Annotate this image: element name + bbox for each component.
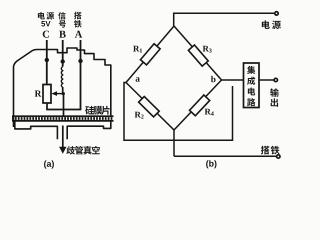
R bottom lead [46, 103, 48, 110]
label R3 [203, 46, 212, 53]
power terminal ring [275, 12, 278, 15]
resistor R1 body [140, 44, 160, 65]
IC box [244, 63, 260, 108]
wire C vertical [46, 40, 48, 85]
wire bridge bottom to ground line [173, 130, 175, 156]
junction dot on B [61, 59, 65, 63]
label R2 [135, 112, 144, 119]
wire node a to IC bottom (down, right, up) [124, 83, 233, 141]
diaphragm band bottom line [12, 120, 114, 122]
caption (a) [44, 160, 54, 168]
output wire from IC [259, 79, 274, 81]
label 搭铁 (terminal A) [74, 12, 82, 19]
resistor R (part a) [43, 85, 51, 104]
label 电源 5V (terminal C) [38, 12, 45, 19]
resistor R2 body [139, 96, 160, 116]
junction dot on C [45, 58, 49, 62]
diaphragm band dotted texture [12, 117, 114, 120]
power wire from bridge top [174, 13, 275, 26]
label node b [211, 76, 216, 82]
bridge arm wire a to bottom [126, 83, 174, 131]
ground terminal ring [277, 155, 280, 158]
bridge arm wire a to top [126, 26, 174, 83]
label 输出 [270, 88, 279, 107]
label R4 [205, 109, 214, 116]
label node a [136, 77, 140, 81]
potentiometer wiper arrow into R [57, 93, 64, 95]
wire B vertical (top) [62, 40, 64, 67]
coil on wire B [61, 67, 62, 88]
housing lower-left wall, bottom edge, vacuum tube left wall [15, 121, 58, 140]
wire B below coil [62, 87, 64, 94]
label 硅膜片 (silicon diaphragm) [85, 106, 109, 115]
output terminal ring [274, 78, 277, 81]
manifold vacuum arrow [62, 126, 64, 150]
label 歧管真空 [66, 146, 99, 155]
junction dot on A [78, 59, 82, 63]
junction dot wiper/B [62, 92, 65, 95]
wire A vertical [80, 40, 82, 110]
pin letter B [59, 31, 66, 38]
wire node b to IC box [222, 79, 244, 81]
pin letter C [43, 31, 49, 38]
label 信号 (terminal B) [58, 12, 65, 20]
sensor housing outline [14, 48, 111, 127]
label 电源 (part b) [262, 20, 281, 29]
pin letter A [75, 31, 82, 38]
label 搭铁 (part b) [261, 146, 280, 155]
wire B continuing to diaphragm [63, 94, 65, 117]
bridge arm wire bottom to b [174, 80, 222, 130]
label R [35, 91, 42, 97]
resistor R3 body [188, 45, 208, 66]
ground line [174, 155, 276, 157]
wire R-to-A horizontal [46, 109, 81, 111]
caption (b) [206, 160, 216, 168]
bridge arm wire top to b [174, 26, 222, 80]
resistor R4 body [189, 95, 209, 116]
label R1 [133, 46, 142, 53]
housing lower-right wall, bottom edge, vacuum tube right wall [67, 121, 111, 140]
IC box label 集成电路 [247, 66, 255, 106]
diaphragm band top line [12, 115, 114, 117]
